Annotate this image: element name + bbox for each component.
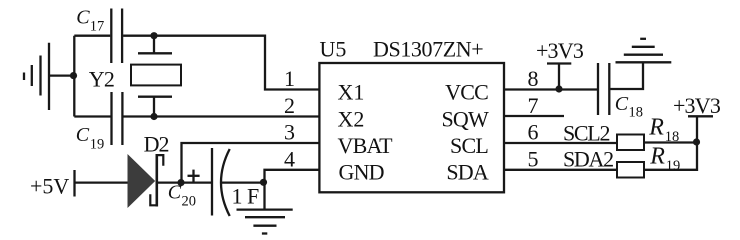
label GND [339, 160, 384, 185]
svg-text:+3V3: +3V3 [673, 93, 721, 118]
svg-text:SQW: SQW [442, 106, 490, 131]
svg-text:C: C [168, 182, 182, 204]
label R18 [648, 115, 679, 146]
junction dot (ground node) [260, 179, 267, 186]
svg-text:2: 2 [284, 93, 295, 118]
svg-text:U5: U5 [320, 37, 347, 62]
pin 6 number [528, 120, 539, 145]
label SDA [446, 160, 489, 185]
resistor R19 [617, 162, 644, 178]
label +3V3 (pull-ups) [673, 93, 721, 118]
label C17 [76, 7, 104, 35]
svg-text:Y2: Y2 [89, 67, 114, 92]
label SDA2 [563, 146, 613, 171]
wire: VBAT node riser and pin 3 wire [182, 143, 320, 183]
pin 3 number [284, 120, 295, 145]
power +3V3 (pull-ups) bar [688, 115, 713, 117]
polarity + mark [188, 170, 200, 182]
label DS1307ZN+ [373, 37, 483, 62]
svg-text:1 F: 1 F [232, 184, 260, 209]
+5V terminal bar [73, 170, 75, 197]
pin 2 number [284, 93, 295, 118]
svg-text:19: 19 [90, 137, 105, 153]
pin 7 number [528, 93, 539, 118]
pin 1 number [284, 66, 295, 91]
label +5V [30, 174, 69, 199]
junction dot (VBAT node) [177, 179, 184, 186]
capacitor C20 (1 F supercap) [212, 148, 230, 216]
svg-text:X1: X1 [338, 80, 365, 105]
capacitor C18 [598, 63, 609, 115]
svg-text:GND: GND [339, 160, 384, 185]
wire: R19 to +3V3 riser [644, 116, 697, 170]
junction dot (pull-up rail) [693, 138, 700, 145]
label VCC [445, 80, 488, 105]
svg-text:+5V: +5V [30, 174, 69, 199]
svg-text:X2: X2 [338, 106, 365, 131]
svg-text:6: 6 [528, 120, 539, 145]
label SCL2 [563, 121, 609, 146]
crystal Y2 [131, 36, 181, 117]
svg-text:7: 7 [528, 93, 539, 118]
pin 8 number [528, 66, 539, 91]
label X2 [338, 106, 365, 131]
svg-text:D2: D2 [144, 132, 169, 157]
IC U5 box [319, 63, 504, 192]
wire: C18 to ground riser [610, 62, 643, 89]
ground (earth) below C20 [237, 210, 293, 234]
capacitor C17 [111, 9, 122, 64]
label D2 [144, 132, 169, 157]
svg-text:8: 8 [528, 66, 539, 91]
pin 4 number [284, 146, 295, 171]
wire: top rail right segment, riser and pin 1 stub [123, 36, 319, 90]
wire: pin 5 (SDA) to R19 [505, 169, 617, 171]
svg-text:VCC: VCC [445, 80, 488, 105]
svg-text:C: C [76, 124, 90, 146]
svg-text:18: 18 [665, 129, 680, 145]
svg-text:SDA2: SDA2 [563, 146, 613, 171]
diode D2 (Schottky) [128, 154, 164, 208]
svg-text:DS1307ZN+: DS1307ZN+ [373, 37, 483, 62]
resistor R18 [617, 135, 644, 151]
label R19 [649, 144, 680, 175]
svg-text:19: 19 [666, 158, 681, 174]
wire: top rail left segment [74, 35, 110, 37]
label C19 [76, 124, 105, 153]
svg-text:1: 1 [284, 66, 295, 91]
wire: pin 6 (SCL) to R18 [505, 142, 617, 144]
svg-text:3: 3 [284, 120, 295, 145]
svg-text:R: R [649, 144, 665, 170]
svg-text:SDA: SDA [446, 160, 489, 185]
wire: pin 7 (SQW) stub [505, 115, 564, 117]
wire: C20 to ground node [222, 181, 265, 183]
svg-text:SCL2: SCL2 [563, 121, 609, 146]
power +3V3 (VCC) bar and riser [547, 64, 571, 90]
label SQW [442, 106, 490, 131]
label X1 [338, 80, 365, 105]
label Y2 [89, 67, 114, 92]
ground (earth, inverted) above C18 [616, 39, 672, 63]
label C20 [168, 182, 196, 210]
svg-text:17: 17 [90, 19, 105, 35]
label 1 F [232, 184, 260, 209]
wire: R18 to +3V3 rail [644, 141, 697, 143]
label C18 [615, 93, 643, 121]
capacitor C19 [112, 92, 123, 145]
svg-text:C: C [76, 7, 90, 29]
ground (chassis) for Y2 [24, 43, 49, 110]
pin 5 number [528, 146, 539, 171]
label U5 [320, 37, 347, 62]
label +3V3 (VCC) [536, 38, 584, 63]
svg-text:VBAT: VBAT [338, 133, 394, 158]
svg-text:18: 18 [629, 105, 644, 121]
svg-text:SCL: SCL [450, 133, 488, 158]
label VBAT [338, 133, 394, 158]
label SCL [450, 133, 488, 158]
svg-text:R: R [648, 115, 664, 141]
junction dot (crystal bottom) [150, 113, 157, 120]
wire: ground stem to left rail [49, 74, 74, 76]
svg-text:20: 20 [182, 194, 197, 210]
wire: bottom rail (X2) right segment to pin 2 [123, 115, 319, 117]
wire: ground node stem down [263, 183, 265, 210]
wire: ground node riser and pin 4 wire [265, 170, 320, 183]
wire: D2 cathode to C20 [157, 181, 211, 183]
wire: +5V to D2 anode [75, 181, 129, 183]
junction dot (ground / left rail) [70, 72, 77, 79]
junction dot (crystal top) [150, 32, 157, 39]
wire: left vertical rail [73, 36, 75, 117]
svg-text:5: 5 [528, 146, 539, 171]
wire: pin 8 (VCC) to C18 [504, 88, 597, 90]
svg-text:C: C [615, 93, 629, 115]
svg-text:+3V3: +3V3 [536, 38, 584, 63]
junction dot (+3V3 VCC node) [555, 85, 562, 92]
wire: bottom rail (X2) left segment [74, 115, 110, 117]
svg-text:4: 4 [284, 146, 295, 171]
